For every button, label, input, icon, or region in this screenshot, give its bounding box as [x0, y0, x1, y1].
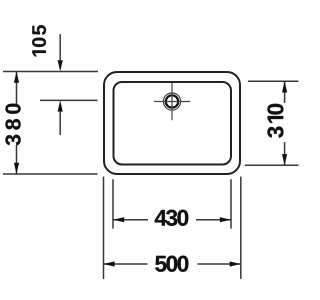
basin inner rim (rounded rect) — [114, 82, 232, 165]
overflow crosshair horizontal — [154, 101, 190, 103]
extension line below basin: inner-left — [112, 179, 114, 228]
extension line below basin: outer-right — [240, 177, 242, 279]
dimension 500: line + outward arrows — [104, 263, 148, 265]
label 380 — [5, 104, 20, 146]
dimension 380: top arrow (up) — [14, 72, 19, 83]
label 105 — [32, 25, 46, 56]
extension line below basin: inner-right — [230, 179, 232, 228]
dimension 105: lower shaft with up arrow — [59, 110, 61, 135]
dimension 310: vertical line right — [284, 81, 286, 103]
dimension 105: upper shaft with down arrow — [59, 34, 61, 62]
overflow crosshair vertical — [171, 82, 173, 120]
label 310 — [267, 104, 283, 138]
dimension 380: vertical line left — [16, 72, 18, 105]
dimension 380: bottom arrow (down) — [14, 163, 19, 174]
extension line top-left (basin top edge level) — [3, 71, 98, 73]
label 500 — [155, 256, 188, 272]
extension line bottom-left (basin bottom edge level) — [3, 173, 98, 175]
extension line top-right (inner rim top level) — [248, 80, 299, 82]
label 430 — [155, 210, 189, 226]
extension line below basin: outer-left — [103, 177, 105, 279]
basin outer rim (rounded rect) — [104, 72, 240, 174]
overflow hole outer circle — [163, 93, 180, 110]
dimension 310: top arrow (up) — [282, 81, 287, 92]
overflow hole inner circle — [166, 95, 178, 107]
extension line bottom-right (inner rim bottom level) — [245, 164, 299, 166]
dimension 430: line + outward arrows — [113, 219, 148, 221]
extension line drain-center-left — [40, 99, 98, 101]
dimension 310: bottom arrow (down) — [282, 154, 287, 165]
